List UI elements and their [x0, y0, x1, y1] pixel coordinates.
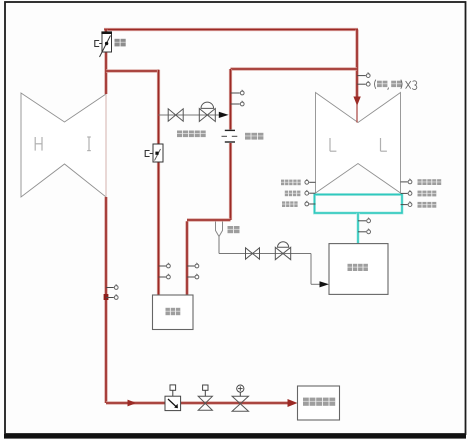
pipe valve stub above: [104, 30, 107, 34]
condenser box (cyan): [315, 195, 403, 214]
exhaust device box: [329, 244, 388, 295]
tap P1: [231, 92, 240, 94]
pipe top header: [104, 28, 358, 31]
drain pot funnel: [216, 222, 223, 237]
tap LP right 3: [401, 204, 408, 206]
gate valve V2: [246, 248, 260, 259]
label heat-net heater: [303, 398, 309, 406]
drain branch line: [159, 114, 220, 116]
tap LP right 2: [401, 192, 408, 194]
pipe from valve to turbine: [104, 52, 107, 94]
pipe flowmeter leg lower: [229, 143, 232, 221]
pipe flowmeter leg upper: [229, 69, 232, 130]
pipe branch y71: [106, 69, 159, 72]
tap main leg 1: [106, 287, 114, 289]
label exhaust device: [348, 264, 353, 271]
pipe desuperheater right leg: [185, 221, 188, 295]
label flow meter: [245, 133, 251, 140]
label H: [35, 137, 42, 151]
tap LP left 1: [309, 181, 315, 183]
flow meter orifice plates: [226, 130, 236, 144]
tap LP left 2: [309, 192, 315, 194]
tap desup left leg 2: [159, 276, 167, 278]
arrow into LP turbine: [353, 97, 360, 106]
arrow into flow leg: [219, 112, 229, 118]
tap condenser 1: [358, 220, 366, 222]
label L left: [330, 138, 336, 151]
label drain pot: [228, 226, 234, 233]
pipe desuperheater left leg lower: [157, 162, 160, 295]
drain line drop: [310, 254, 312, 285]
desuperheater box: [153, 295, 194, 330]
pipe second header y69: [231, 67, 358, 70]
label (pressure, temp) X3: [375, 80, 417, 90]
shutoff device bracket: [145, 151, 149, 157]
arrow into exhaust box: [320, 281, 330, 287]
motor valve actuator: [172, 390, 174, 396]
tap LP left 3: [309, 203, 315, 205]
pipe main down leg: [104, 197, 107, 403]
pipe bottom header: [106, 401, 289, 404]
tap desup right leg 1: [187, 265, 195, 267]
shutoff device body: [153, 144, 163, 162]
drain stem: [218, 237, 220, 254]
control valve CV2: [275, 247, 290, 259]
condenser outlet pipe (cyan): [357, 213, 360, 244]
valve V4 actuator circle: [239, 392, 241, 396]
control valve CV2 dome: [278, 242, 289, 248]
turbine HP-IP body: [21, 93, 106, 197]
tap condenser 2: [358, 231, 366, 233]
pipe through turbine (faint): [105, 94, 107, 197]
butterfly valve actuator bracket: [95, 41, 99, 47]
control valve CV1 dome: [201, 102, 214, 108]
arrow mid bottom pipe: [128, 400, 137, 407]
gate valve V3 actuator: [204, 390, 206, 396]
motor valve box: [165, 396, 181, 410]
heat-net heater box: [298, 386, 340, 420]
pipe desuperheater left leg upper: [157, 70, 160, 144]
label desuperheater: [166, 308, 170, 315]
valve V4: [232, 396, 248, 411]
label I: [87, 137, 91, 151]
label butterfly valve: [115, 39, 120, 47]
tap LP inlet 2: [357, 83, 366, 85]
tap desup right leg 2: [187, 276, 195, 278]
label flash tank: [177, 131, 182, 138]
gate valve V1: [168, 109, 183, 121]
butterfly valve body: [102, 33, 112, 52]
junction blob: [104, 294, 109, 300]
pipe elbow y220: [187, 218, 231, 221]
turbine LP body: [316, 93, 401, 194]
control valve CV1: [199, 109, 215, 122]
label L right: [381, 138, 387, 151]
drain line: [219, 253, 311, 255]
tap LP right 1: [401, 181, 408, 183]
tap LP inlet 1: [357, 75, 366, 77]
arrow into heater box: [288, 399, 298, 407]
tap main leg 2: [106, 297, 114, 299]
tap desup left leg 1: [159, 265, 167, 267]
gate valve V3: [198, 396, 212, 410]
tap T1: [231, 103, 240, 105]
pipe LP inlet downcomer: [355, 30, 358, 98]
